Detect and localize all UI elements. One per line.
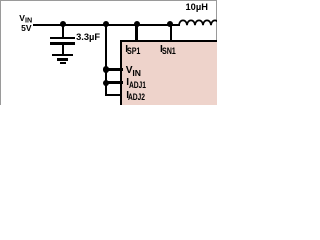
junction dot ISP1 branch	[134, 21, 140, 27]
wire left bus vertical	[105, 24, 107, 96]
inductor L1 10uH	[0, 0, 217, 105]
IC U1 box	[120, 40, 217, 106]
value label 3.3uF	[76, 33, 100, 42]
pin label ISP1	[125, 45, 144, 56]
ground bar 3	[60, 62, 66, 64]
frame top edge	[0, 0, 217, 1]
net label 5V	[21, 24, 31, 33]
capacitor C1 bottom plate	[50, 42, 75, 44]
junction dot ISN1 branch	[167, 21, 173, 27]
pin label IADJ1	[126, 78, 151, 90]
pin label VIN	[126, 66, 141, 77]
junction dot cap branch	[60, 21, 66, 27]
ground bar 1	[52, 54, 73, 56]
net label VIN	[19, 14, 32, 24]
junction dot VIN pin	[103, 66, 109, 72]
wire capacitor to ground	[62, 45, 64, 55]
frame left edge	[0, 0, 1, 105]
pin label IADJ2	[126, 91, 151, 103]
pin label ISN1	[160, 45, 180, 56]
frame right edge	[216, 0, 217, 41]
wire IADJ1 pin stub	[106, 81, 123, 84]
value label 10uH	[186, 3, 208, 12]
capacitor C1 top plate	[50, 37, 75, 39]
wire IADJ2 pin stub	[105, 94, 122, 97]
wire ISP1 stub	[135, 24, 137, 41]
junction dot left bus	[103, 21, 109, 27]
wire capacitor stub	[62, 24, 64, 37]
ground bar 2	[57, 58, 68, 60]
wire main top	[33, 24, 180, 26]
wire ISN1 stub	[170, 24, 172, 41]
wire VIN pin stub	[106, 68, 123, 71]
junction dot IADJ1 pin	[103, 80, 109, 86]
